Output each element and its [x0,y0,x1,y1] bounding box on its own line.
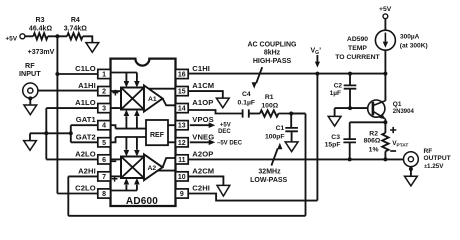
svg-text:AD600: AD600 [126,196,158,207]
svg-text:GAT2: GAT2 [76,132,96,141]
svg-text:C2: C2 [334,83,343,90]
svg-text:HIGH-PASS: HIGH-PASS [253,58,292,65]
svg-text:A2LO: A2LO [75,149,96,158]
svg-text:7: 7 [102,174,106,181]
svg-text:3: 3 [102,106,106,113]
svg-text:Q1: Q1 [393,101,402,108]
svg-text:1%: 1% [369,146,379,153]
svg-text:A1HI: A1HI [78,81,96,90]
svg-text:9: 9 [180,191,184,198]
svg-text:1µF: 1µF [330,90,341,97]
svg-text:A1CM: A1CM [192,81,214,90]
svg-text:INPUT: INPUT [19,69,41,78]
svg-text:A1: A1 [148,96,157,103]
svg-text:+5V: +5V [220,123,231,129]
svg-text:8kHz: 8kHz [264,50,281,57]
svg-text:TEMP: TEMP [348,45,367,52]
svg-text:AC COUPLING: AC COUPLING [248,41,298,48]
svg-text:+373mV: +373mV [28,49,55,56]
svg-text:2: 2 [102,89,106,96]
svg-text:R1: R1 [265,94,274,101]
svg-text:15pF: 15pF [325,141,341,148]
svg-text:DEC: DEC [218,129,231,135]
svg-text:TO CURRENT: TO CURRENT [335,54,380,61]
svg-text:A1OP: A1OP [192,98,213,107]
svg-text:806Ω: 806Ω [364,138,381,145]
svg-text:LOW-PASS: LOW-PASS [250,177,287,184]
svg-text:32MHz: 32MHz [258,168,281,175]
svg-text:12: 12 [178,140,186,147]
svg-text:GAT1: GAT1 [76,115,97,124]
svg-text:14: 14 [178,106,186,113]
svg-text:5: 5 [102,140,106,147]
svg-text:C1: C1 [276,125,285,132]
svg-text:REF: REF [150,132,165,139]
svg-text:300µA: 300µA [400,34,420,41]
svg-text:C2HI: C2HI [192,184,210,193]
svg-text:A1LO: A1LO [75,98,96,107]
svg-text:C3: C3 [331,134,340,141]
svg-text:46.4kΩ: 46.4kΩ [29,26,53,33]
svg-text:100Ω: 100Ω [261,102,278,109]
svg-text:2N3904: 2N3904 [393,109,415,115]
svg-text:100pF: 100pF [265,134,285,141]
svg-text:(at 300K): (at 300K) [400,42,428,49]
svg-text:R3: R3 [36,17,45,24]
svg-text:3.74kΩ: 3.74kΩ [64,26,88,33]
svg-text:11: 11 [178,157,186,164]
svg-text:C1HI: C1HI [192,64,210,73]
svg-text:–5V DEC: –5V DEC [217,141,243,147]
svg-text:AD590: AD590 [347,36,368,43]
svg-text:0.1µF: 0.1µF [238,99,256,106]
svg-text:A2: A2 [147,165,156,172]
svg-text:C4: C4 [242,91,251,98]
svg-text:R4: R4 [71,17,80,24]
svg-text:A2CM: A2CM [192,166,214,175]
svg-text:16: 16 [178,72,186,79]
svg-text:1: 1 [102,72,106,79]
svg-text:OUTPUT: OUTPUT [424,155,451,162]
svg-text:R2: R2 [369,130,378,137]
svg-text:8: 8 [102,191,106,198]
svg-text:6: 6 [102,157,106,164]
svg-text:10: 10 [178,174,186,181]
svg-text:A2HI: A2HI [78,166,96,175]
svg-text:VNEG: VNEG [192,132,214,141]
svg-text:+5V: +5V [379,6,392,13]
svg-text:15: 15 [178,89,186,96]
svg-text:4: 4 [102,123,106,130]
svg-text:±1.25V: ±1.25V [424,163,444,170]
svg-text:13: 13 [178,123,186,130]
svg-text:VPOS: VPOS [192,115,214,124]
svg-text:+5V: +5V [5,36,17,43]
svg-text:C2LO: C2LO [75,184,96,193]
svg-text:C1LO: C1LO [75,64,96,73]
svg-text:A2OP: A2OP [192,149,213,158]
